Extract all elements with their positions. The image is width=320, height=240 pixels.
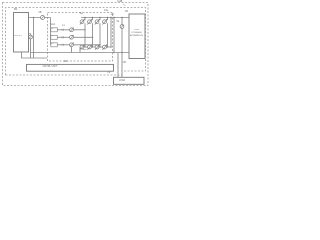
- high-side switch Q4: [102, 17, 108, 25]
- label Sw2: [82, 49, 86, 51]
- load box: [114, 77, 145, 84]
- row 1 switch circle: [70, 28, 74, 32]
- row 3 line to grid: [73, 44, 100, 46]
- output rail: [31, 52, 130, 54]
- high-side switch Q2: [87, 17, 93, 25]
- label 10a: [104, 10, 108, 12]
- label APPARATUS: [112, 35, 162, 37]
- power storage apparatus box: [129, 14, 145, 59]
- phase vertical 4: [107, 23, 109, 47]
- storage branch with sensor: [121, 18, 123, 78]
- leader tick for 10a: [123, 4, 126, 6]
- label S2: [51, 36, 53, 38]
- wire battery top to node: [29, 17, 51, 19]
- row 3: filter box: [51, 43, 58, 47]
- wire feed down x50: [50, 18, 52, 45]
- voltage sensor circle: [29, 35, 33, 39]
- battery bottom wire: [22, 52, 48, 58]
- high-side switch Q1: [80, 17, 86, 25]
- label S1: [51, 29, 53, 31]
- row 2 wire: [57, 36, 69, 38]
- current sensor SE1: [41, 16, 45, 20]
- phase vertical 1: [84, 23, 86, 47]
- phase vertical 3: [99, 23, 101, 47]
- row 3 wire: [57, 44, 69, 46]
- label L1: [62, 25, 65, 27]
- label 1M: [125, 11, 128, 13]
- drop wire x113.5: [113, 18, 115, 53]
- label 10b: [64, 61, 68, 63]
- inner dashed boundary (power supply system): [6, 8, 146, 76]
- node junction at x33: [33, 17, 34, 18]
- label STORAGE: [112, 32, 162, 34]
- control unit box: [27, 64, 114, 71]
- label S3: [51, 44, 53, 46]
- sensor circle 6a: [120, 25, 124, 29]
- label PWR: [112, 29, 162, 31]
- label 1M: [111, 14, 114, 16]
- label Sw1: [51, 24, 56, 26]
- row 2 line to grid: [73, 36, 92, 38]
- low-side switch Q8: [102, 44, 107, 49]
- label Ld: [108, 72, 111, 74]
- label B1: [14, 8, 18, 11]
- row 1 wire: [57, 29, 69, 31]
- row 1 line to grid: [73, 29, 85, 31]
- label LOAD: [97, 80, 147, 82]
- phase vertical 2: [92, 23, 94, 47]
- converter dashed enclosure 10: [48, 13, 113, 62]
- label 6a: [117, 21, 120, 23]
- row 3 contact ticks: [61, 44, 63, 46]
- row 2 contact ticks: [61, 36, 63, 38]
- wire x33 down: [33, 18, 35, 59]
- label CNTRL UNIT: [25, 66, 75, 69]
- top bus: [81, 17, 129, 19]
- label 1M: [123, 62, 126, 64]
- row 2: filter box: [51, 35, 58, 39]
- label PWR SPLY: [13, 36, 22, 38]
- low-side switch Q7: [95, 44, 100, 49]
- low-side switch Q6: [87, 44, 92, 49]
- row 1 contact ticks: [61, 29, 63, 31]
- row 3 switch circle: [70, 43, 74, 47]
- voltage sensor branch wire x30: [29, 33, 31, 35]
- label 10a: [117, 0, 122, 3]
- battery B1 box: [14, 13, 29, 53]
- bottom bus: [80, 46, 111, 48]
- drop wire x110.5: [110, 18, 112, 48]
- bottom bus left drop: [79, 47, 81, 53]
- load wire x117.5: [117, 53, 119, 78]
- label Sw: [80, 13, 83, 15]
- row 3 return to rail: [71, 47, 73, 53]
- low-side switch Q5: [80, 44, 85, 49]
- outer dashed boundary (vehicle): [3, 3, 149, 86]
- row 2 switch circle: [70, 35, 74, 39]
- label 5B: [39, 12, 42, 14]
- high-side switch Q3: [95, 17, 101, 25]
- row 1: filter box: [51, 28, 58, 32]
